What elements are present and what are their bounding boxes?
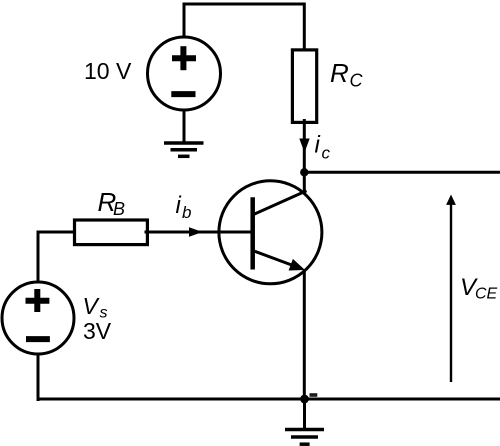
- wire RC to collector node: [303, 119, 306, 172]
- svg-text:i: i: [176, 192, 182, 219]
- svg-text:CE: CE: [475, 286, 498, 303]
- svg-text:b: b: [182, 203, 191, 222]
- wire RB to base: [145, 231, 251, 234]
- tiny net label: [310, 393, 318, 397]
- voltage source Vs: [2, 282, 74, 354]
- svg-text:10 V: 10 V: [84, 58, 132, 84]
- resistor RB: [75, 220, 148, 245]
- wire left node to RB: [37, 231, 75, 234]
- svg-text:C: C: [350, 71, 364, 91]
- ground under V1: [164, 143, 204, 156]
- wire Vs to bottom wire: [37, 354, 40, 401]
- svg-text:i: i: [315, 132, 321, 159]
- svg-text:R: R: [330, 58, 349, 88]
- plus sign of Vs: [26, 289, 50, 312]
- minus sign of V1: [171, 91, 195, 97]
- wire collector node to right edge: [304, 171, 500, 174]
- wire node to collector: [303, 172, 306, 193]
- wire V1 to ground: [183, 110, 186, 143]
- svg-text:B: B: [113, 199, 125, 219]
- wire emitter to bottom node: [303, 270, 306, 400]
- minus sign of Vs: [26, 336, 50, 342]
- bottom wire: [37, 398, 500, 401]
- svg-text:V: V: [83, 293, 101, 319]
- node collector junction: [300, 168, 308, 176]
- svg-text:c: c: [322, 144, 331, 163]
- resistor RC: [292, 50, 316, 123]
- arrowhead ib: [189, 227, 203, 237]
- wire top loop from 10V source to RC: [184, 4, 304, 51]
- node emitter junction: [300, 395, 309, 404]
- plus sign of V1: [172, 46, 196, 70]
- voltage source V1 10V: [148, 37, 221, 110]
- wire RB node down to Vs: [37, 231, 40, 283]
- arrow VCE: [446, 195, 456, 383]
- svg-text:3V: 3V: [83, 318, 112, 344]
- ground bottom: [285, 400, 324, 445]
- transistor Q1: [219, 181, 322, 284]
- arrowhead ic: [299, 139, 309, 153]
